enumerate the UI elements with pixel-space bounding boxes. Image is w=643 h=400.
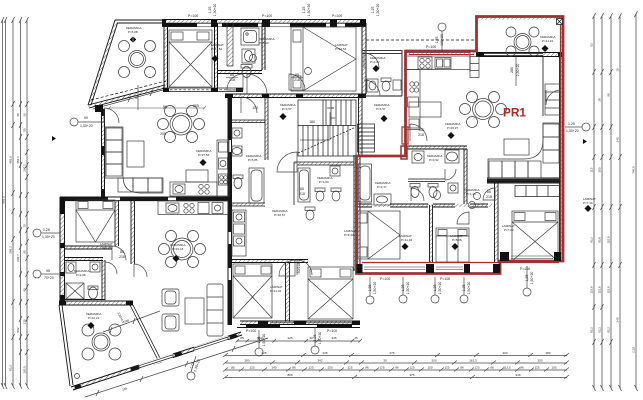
svg-text:975: 975 — [409, 373, 414, 377]
svg-text:1,50+20: 1,50+20 — [406, 282, 410, 295]
svg-text:P=3,57: P=3,57 — [282, 107, 292, 111]
lower terrace inner diagonal — [130, 305, 160, 360]
svg-text:1,30+20: 1,30+20 — [213, 4, 217, 17]
svg-text:P=6,08: P=6,08 — [128, 30, 138, 34]
svg-text:205: 205 — [160, 132, 166, 136]
svg-text:125: 125 — [409, 366, 414, 370]
wall x=131 bottom-left unit interior — [131, 200, 135, 264]
svg-text:345B: 345B — [327, 106, 334, 110]
svg-text:1,30+20: 1,30+20 — [80, 124, 93, 128]
svg-text:180: 180 — [309, 120, 315, 124]
stairwell — [298, 100, 356, 156]
svg-text:105: 105 — [551, 366, 556, 370]
sink bath1 — [242, 49, 255, 63]
svg-text:383,1: 383,1 — [16, 156, 20, 164]
svg-text:30: 30 — [383, 359, 387, 363]
svg-text:1,50+20: 1,50+20 — [530, 272, 534, 285]
svg-text:292,7: 292,7 — [16, 254, 20, 262]
PR1 dining table — [460, 92, 507, 128]
window dim row below middle-bottom unit — [236, 339, 363, 343]
svg-text:162,5: 162,5 — [469, 359, 477, 363]
slanted glass wall south (lower unit) — [71, 332, 242, 390]
PR1 south bedroom walls — [430, 205, 433, 262]
beds bottom-middle unit — [233, 264, 272, 318]
bed bedroom1 top-left — [169, 30, 212, 87]
plain small labels — [42, 14, 579, 333]
bathroom SW walls — [64, 258, 105, 301]
PR1 bathroom fixtures — [410, 150, 459, 198]
PR1 kitchen — [406, 53, 470, 131]
dining table living top-left — [158, 106, 205, 143]
west wall posts — [102, 109, 106, 197]
wall mid vertical x=228 (units divider) — [228, 96, 232, 325]
PR1 bath east wall — [464, 149, 467, 204]
coffee table bottom-left — [185, 298, 204, 324]
wall bath1 east / bedroom2 west — [262, 23, 265, 70]
svg-text:93,8: 93,8 — [598, 237, 602, 243]
svg-text:125: 125 — [308, 366, 313, 370]
svg-text:115: 115 — [590, 167, 594, 172]
svg-text:P=5,06: P=5,06 — [452, 238, 462, 242]
svg-text:1,50+20: 1,50+20 — [438, 282, 442, 295]
dining table bottom-left unit — [159, 231, 206, 268]
svg-text:400: 400 — [330, 116, 335, 120]
svg-text:1,25: 1,25 — [371, 7, 375, 14]
svg-text:120,5: 120,5 — [23, 366, 27, 374]
svg-text:65: 65 — [300, 187, 304, 191]
svg-text:105: 105 — [418, 128, 424, 132]
red boundary polygon — [357, 17, 564, 274]
svg-text:P=3,17: P=3,17 — [377, 185, 387, 189]
svg-text:288,2: 288,2 — [9, 246, 13, 254]
sofa living top-left — [105, 127, 163, 193]
kitchen bottom-left unit — [158, 201, 228, 215]
svg-text:125: 125 — [534, 366, 539, 370]
svg-text:P=3,92: P=3,92 — [429, 158, 439, 162]
svg-text:30: 30 — [16, 113, 20, 117]
svg-text:P=100: P=100 — [380, 277, 390, 281]
south wall middle-bottom unit y=321 — [240, 321, 360, 325]
svg-text:95: 95 — [23, 250, 27, 254]
armchairs bottom-left living — [162, 289, 179, 331]
wall south of top-left unit y=197 — [60, 197, 231, 201]
svg-text:218: 218 — [229, 78, 235, 82]
svg-text:1,30+20: 1,30+20 — [566, 129, 579, 133]
svg-text:140: 140 — [271, 366, 276, 370]
PR1 coffee table — [504, 139, 529, 155]
svg-text:P=33,27: P=33,27 — [447, 126, 459, 130]
svg-text:235: 235 — [322, 351, 327, 355]
svg-text:P=7,24: P=7,24 — [504, 228, 514, 232]
svg-text:1,25: 1,25 — [462, 285, 466, 292]
wall south of bedroom2 (y=94) — [225, 94, 366, 98]
svg-text:85: 85 — [240, 336, 244, 340]
svg-text:86: 86 — [365, 366, 369, 370]
svg-text:342: 342 — [317, 359, 322, 363]
svg-text:10: 10 — [616, 68, 620, 72]
svg-text:100: 100 — [252, 106, 258, 110]
right dimension chain — [593, 11, 638, 391]
svg-text:1,25: 1,25 — [208, 7, 212, 14]
PR1 bed S middle — [436, 228, 469, 262]
middle unit interior walls — [265, 96, 268, 160]
svg-text:1,25: 1,25 — [302, 7, 306, 14]
svg-text:218: 218 — [299, 192, 305, 196]
svg-text:125: 125 — [379, 366, 384, 370]
svg-text:25: 25 — [354, 336, 358, 340]
bottom dimension texts — [116, 311, 556, 391]
svg-text:275: 275 — [389, 351, 394, 355]
svg-text:86: 86 — [490, 366, 494, 370]
wall bedroom1/bath divider — [215, 23, 218, 88]
wall y=246 bedroom SW south — [64, 246, 112, 249]
svg-text:P=11,34: P=11,34 — [401, 238, 412, 242]
bedroom SE closet strip — [515, 186, 560, 197]
svg-text:1,25: 1,25 — [525, 275, 529, 282]
PR1 closet wall x=543 — [542, 57, 544, 116]
svg-text:P=4,57: P=4,57 — [376, 107, 386, 111]
svg-text:2,30+20: 2,30+20 — [516, 64, 520, 77]
PR1 bed SW — [358, 211, 400, 259]
svg-text:800: 800 — [287, 373, 292, 377]
stairwell east wall — [359, 96, 363, 155]
middle unit kitchen block — [232, 210, 246, 256]
svg-text:P=11,52: P=11,52 — [211, 47, 222, 51]
svg-text:218: 218 — [294, 78, 300, 82]
shower bath1 — [241, 28, 259, 45]
west wall bottom-left unit x=60 — [60, 197, 65, 302]
bed bedroom2 — [291, 27, 356, 91]
svg-text:260,1: 260,1 — [23, 164, 27, 172]
svg-text:70: 70 — [23, 224, 27, 228]
svg-text:30: 30 — [23, 113, 27, 117]
svg-text:P=100: P=100 — [520, 267, 530, 271]
svg-text:240: 240 — [616, 317, 620, 322]
svg-text:P=100: P=100 — [327, 329, 337, 333]
svg-text:P=7,34: P=7,34 — [583, 201, 593, 205]
svg-text:P=11,34: P=11,34 — [270, 289, 281, 293]
svg-text:300: 300 — [537, 359, 542, 363]
svg-text:280: 280 — [510, 67, 514, 73]
svg-text:115,8: 115,8 — [590, 286, 594, 294]
svg-text:218: 218 — [486, 195, 492, 199]
svg-text:2,29: 2,29 — [632, 347, 636, 353]
svg-text:218: 218 — [418, 133, 424, 137]
svg-text:1,25: 1,25 — [568, 122, 575, 126]
svg-text:100+20: 100+20 — [440, 34, 444, 46]
PR1 entry bath small fixtures — [359, 164, 441, 205]
svg-text:P=5,13: P=5,13 — [259, 41, 269, 45]
svg-text:110,8: 110,8 — [607, 236, 611, 244]
svg-text:85: 85 — [230, 73, 234, 77]
svg-text:1,25: 1,25 — [43, 228, 50, 232]
svg-text:1,25: 1,25 — [313, 335, 317, 342]
svg-text:492,6: 492,6 — [9, 156, 13, 164]
terrace PR1 south wall y=52.5 — [476, 53, 563, 57]
small diamond symbols (level markers) — [47, 36, 592, 345]
svg-text:1,25: 1,25 — [433, 285, 437, 292]
rotated dimension texts, left — [2, 113, 27, 374]
svg-text:93,2: 93,2 — [607, 327, 611, 333]
svg-text:60/218: 60/218 — [297, 263, 301, 274]
svg-text:70+20: 70+20 — [44, 276, 54, 280]
svg-text:98: 98 — [607, 93, 611, 97]
door arcs top corridor — [227, 74, 243, 90]
svg-text:125: 125 — [444, 366, 449, 370]
middle unit bedroom top wall y=259 — [231, 260, 308, 263]
svg-text:P=100: P=100 — [262, 14, 272, 18]
svg-text:93,2: 93,2 — [590, 237, 594, 243]
svg-text:349: 349 — [515, 373, 520, 377]
slanted dimension along upper-left terrace — [93, 90, 163, 109]
middle unit east wall x=356 black double under red — [354, 155, 360, 271]
corner column marker — [557, 19, 563, 25]
svg-text:90: 90 — [163, 105, 167, 109]
PR1 terrace table — [506, 27, 539, 56]
dashed south wall of top-left bedrooms — [163, 88, 243, 92]
slanted dimension along lower terrace — [85, 311, 268, 397]
svg-text:P=27,56: P=27,56 — [198, 153, 210, 157]
svg-text:P=11,24: P=11,24 — [542, 39, 553, 43]
svg-text:280: 280 — [244, 359, 249, 363]
svg-text:1,50+20: 1,50+20 — [262, 334, 266, 347]
rotated small labels — [135, 4, 534, 373]
middle unit bathroom left fixtures — [232, 128, 264, 203]
svg-text:85: 85 — [120, 250, 124, 254]
svg-text:86: 86 — [395, 366, 399, 370]
svg-text:85: 85 — [295, 73, 299, 77]
door size labels — [119, 73, 492, 259]
svg-text:300: 300 — [431, 359, 436, 363]
wall bath1 south y=70.5 — [217, 71, 262, 74]
svg-text:218: 218 — [119, 255, 125, 259]
wall bedroom1 west (terrace east edge) — [164, 20, 168, 91]
svg-text:PR1: PR1 — [503, 106, 526, 120]
svg-text:1,50+20: 1,50+20 — [318, 332, 322, 345]
svg-text:83,2: 83,2 — [9, 365, 13, 371]
bedroom SE north wall y=179 — [487, 178, 560, 183]
svg-text:P=1,10: P=1,10 — [466, 192, 476, 196]
svg-text:P=1,84: P=1,84 — [319, 180, 329, 184]
svg-text:65: 65 — [487, 190, 491, 194]
svg-text:125: 125 — [249, 366, 254, 370]
svg-text:300: 300 — [598, 167, 602, 172]
svg-text:1,25: 1,25 — [435, 37, 439, 44]
svg-text:345: 345 — [331, 336, 336, 340]
svg-text:P=9,43: P=9,43 — [344, 233, 354, 237]
PR1 bath north wall y=146 — [405, 146, 467, 149]
sofa bottom-left — [207, 284, 223, 336]
svg-text:P=100: P=100 — [188, 14, 198, 18]
svg-text:1,50+20: 1,50+20 — [373, 282, 377, 295]
black posts on slanted wall — [74, 333, 238, 389]
lower terrace west slant — [59, 305, 73, 386]
wall top (north) double line — [162, 20, 366, 24]
red inner face right — [560, 20, 562, 258]
middle unit bathroom right fixtures — [298, 166, 341, 202]
svg-text:1,30+20: 1,30+20 — [376, 4, 380, 17]
svg-text:300: 300 — [502, 351, 507, 355]
PR1 bath mid wall y=180 — [408, 179, 445, 182]
lower terrace north wall y=301 — [59, 301, 133, 305]
svg-text:P=13,54: P=13,54 — [335, 47, 347, 51]
svg-text:1,25: 1,25 — [401, 285, 405, 292]
red bath wall block — [401, 146, 407, 159]
svg-text:1,30+20: 1,30+20 — [42, 235, 55, 239]
wall bedroom2 east (x=362) — [362, 23, 366, 94]
svg-text:240: 240 — [616, 137, 620, 142]
red inner face bottom — [362, 262, 559, 264]
svg-text:53: 53 — [590, 43, 594, 47]
svg-text:63,2: 63,2 — [598, 327, 602, 333]
svg-text:740,5: 740,5 — [632, 166, 636, 174]
svg-text:90: 90 — [84, 116, 88, 120]
wall hatch fills — [59, 17, 563, 391]
windows on slanted wall — [139, 353, 173, 369]
svg-text:28: 28 — [598, 98, 602, 102]
PR1 east inner wall x=560 — [559, 56, 561, 260]
svg-text:P=31,18: P=31,18 — [172, 247, 184, 251]
svg-text:255: 255 — [193, 104, 199, 108]
svg-text:150: 150 — [327, 366, 332, 370]
svg-text:325: 325 — [287, 336, 292, 340]
svg-text:115,8: 115,8 — [607, 286, 611, 294]
svg-text:125: 125 — [474, 366, 479, 370]
svg-text:150: 150 — [427, 366, 432, 370]
svg-text:P=100: P=100 — [426, 45, 436, 49]
interior dim line living top-left — [108, 106, 206, 110]
wall between two bottom-middle bedrooms — [286, 263, 290, 321]
dashed overhang above PR1 kitchen — [366, 39, 476, 41]
svg-text:P=100: P=100 — [246, 329, 256, 333]
svg-text:112,5: 112,5 — [503, 366, 511, 370]
svg-text:992,6: 992,6 — [2, 196, 6, 204]
bed bottom-left bedroom — [76, 200, 115, 242]
toilet bath1 — [242, 67, 251, 78]
wall top window bars and posts — [162, 20, 366, 27]
terrace bottom-left table — [75, 324, 122, 379]
PR1 entry stairs — [358, 124, 375, 152]
svg-text:125: 125 — [347, 366, 352, 370]
svg-text:P=100: P=100 — [332, 14, 342, 18]
svg-text:95: 95 — [46, 269, 50, 273]
rotated dimension texts, right — [590, 43, 636, 353]
terrace top-left outline — [88, 20, 164, 105]
svg-text:83,2: 83,2 — [590, 327, 594, 333]
duct wall bath1 — [227, 23, 233, 66]
kitchen top-left unit — [170, 140, 229, 196]
svg-text:1,25: 1,25 — [368, 285, 372, 292]
svg-text:90: 90 — [23, 288, 27, 292]
svg-text:P=5,85: P=5,85 — [248, 158, 258, 162]
svg-text:P=100: P=100 — [440, 277, 450, 281]
svg-text:280: 280 — [545, 351, 550, 355]
svg-text:86: 86 — [460, 366, 464, 370]
svg-text:P=4,02: P=4,02 — [370, 60, 380, 64]
coffee table top-left — [127, 141, 144, 167]
red kitchen north inner — [409, 54, 474, 56]
window posts inside red south band — [357, 252, 562, 273]
svg-text:90: 90 — [135, 95, 139, 99]
bathroom SW fixtures — [66, 262, 100, 299]
PR1 sofa — [488, 123, 560, 180]
post at terrace foot — [95, 105, 103, 112]
terrace bottom edge diagonal — [88, 85, 165, 108]
PR1 bed SE — [512, 211, 558, 261]
svg-text:55: 55 — [23, 128, 27, 132]
wall bath PR1-north block west x=402 — [366, 50, 402, 96]
svg-text:P=10,22: P=10,22 — [88, 316, 100, 320]
PR1 upper bath (between bed2 and kitchen) — [364, 53, 401, 92]
svg-text:1,30+20: 1,30+20 — [307, 4, 311, 17]
svg-text:115,8: 115,8 — [598, 286, 602, 294]
PR1 closet — [545, 84, 560, 115]
svg-text:P=2,06: P=2,06 — [76, 273, 86, 277]
left dimension chain — [1, 17, 29, 389]
svg-text:86: 86 — [520, 366, 524, 370]
svg-text:175: 175 — [23, 319, 27, 324]
PR1 bedroom north wall y=204 — [356, 204, 488, 207]
svg-text:86: 86 — [292, 366, 296, 370]
svg-text:1,25: 1,25 — [257, 337, 261, 344]
bottom dimension chain — [223, 353, 569, 379]
table terrace top-left — [119, 41, 156, 78]
PR1 closet west — [470, 57, 479, 78]
svg-text:1,50+20: 1,50+20 — [467, 282, 471, 295]
WC middle unit — [305, 207, 315, 220]
svg-text:P=9,08: P=9,08 — [102, 246, 112, 250]
svg-text:85: 85 — [231, 366, 235, 370]
living west wall (top-left unit) — [102, 109, 105, 197]
PR1 upper bath walls — [362, 51, 402, 54]
svg-text:502: 502 — [16, 327, 20, 332]
wall bedroom SW x=115 — [115, 200, 119, 246]
svg-text:P=10,57: P=10,57 — [274, 213, 286, 217]
